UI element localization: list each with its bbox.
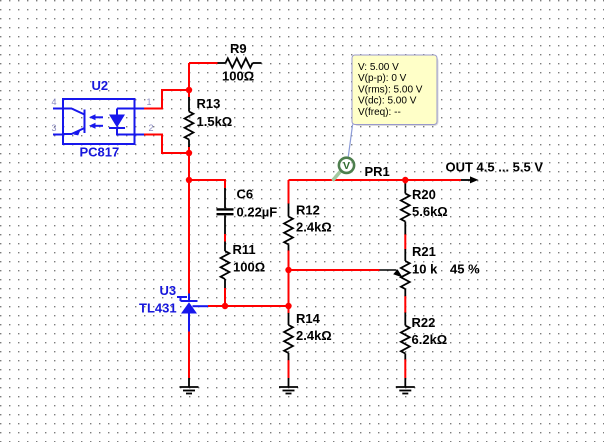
svg-text:5.6kΩ: 5.6kΩ [412, 204, 448, 219]
svg-text:V: V [343, 160, 350, 172]
svg-text:2: 2 [149, 123, 154, 133]
wire: R12 column [288, 180, 290, 204]
anode lead (blue) [188, 314, 190, 332]
svg-text:R22: R22 [412, 315, 436, 330]
U2 box [63, 99, 135, 144]
junction on rail at pin2 wire [186, 150, 192, 156]
svg-text:1: 1 [147, 97, 152, 107]
svg-text:100Ω: 100Ω [233, 260, 265, 275]
svg-text:PR1: PR1 [365, 164, 390, 179]
svg-text:R14: R14 [296, 311, 321, 326]
svg-text:TL431: TL431 [139, 301, 177, 316]
resistor R12 2.4kΩ [284, 204, 293, 251]
reference stub (blue) [193, 305, 209, 307]
resistor R22 6.2kΩ [401, 313, 410, 360]
shunt regulator U3 TL431 [177, 294, 208, 332]
wire: R20/R21/R22 column [404, 180, 406, 184]
wire: main output net [289, 179, 462, 181]
probe PR1 lens [339, 158, 354, 173]
junction R11 on ref line [222, 303, 228, 309]
svg-text:3: 3 [52, 123, 57, 133]
phototransistor bar [84, 110, 86, 134]
light arrowhead 1 [89, 114, 96, 120]
light arrow 2 [94, 125, 103, 127]
svg-text:OUT 4.5 ... 5.5 V: OUT 4.5 ... 5.5 V [446, 160, 544, 175]
wire: TL431 ref line to R12/R14 node [208, 305, 289, 307]
probe PR1 handle [334, 171, 342, 180]
svg-text:45 %: 45 % [450, 262, 480, 277]
svg-text:U3: U3 [160, 283, 177, 298]
junction wiper branch [285, 267, 291, 273]
junction on rail at C6 branch [186, 177, 192, 183]
svg-text:R12: R12 [296, 203, 320, 218]
OUT arrow [461, 179, 471, 181]
light arrow 1 [94, 116, 103, 118]
ground (right, under R22) [396, 378, 415, 394]
svg-text:6.2kΩ: 6.2kΩ [412, 332, 448, 347]
cathode bar [181, 300, 198, 302]
svg-text:V(rms): 5.00 V: V(rms): 5.00 V [358, 84, 423, 95]
svg-text:V(freq): --: V(freq): -- [358, 107, 401, 118]
resistor R20 5.6kΩ [401, 184, 410, 235]
ground (middle, under R14) [279, 378, 298, 394]
junction on rail at pin1 wire [186, 87, 192, 93]
resistor R11 100Ω [221, 242, 230, 289]
collector line [63, 109, 85, 115]
junction ref line at R12/R14 column [285, 303, 291, 309]
svg-text:V: 5.00 V: V: 5.00 V [358, 62, 399, 73]
wire: U2 pin1 to rail [144, 90, 189, 109]
emitter line [63, 128, 85, 134]
LED cathode bar [109, 127, 125, 129]
wire: wiper from R12/R14 node to R21 [289, 269, 380, 271]
LED triangle [109, 115, 125, 128]
potentiometer R21 10 k [401, 249, 410, 296]
wire: C6 to R11 [224, 234, 226, 242]
U2 pin stubs [53, 108, 63, 110]
emitter arrowhead [74, 129, 82, 136]
measurement callout box [352, 55, 437, 125]
measurement callout shadow [354, 57, 439, 126]
svg-text:1.5kΩ: 1.5kΩ [197, 114, 233, 129]
svg-text:R13: R13 [197, 96, 221, 111]
ground (left, under TL431) [180, 378, 199, 394]
capacitor C6 0.22µF [217, 188, 234, 234]
resistor R13 1.5kΩ (vertical on rail) [185, 97, 194, 147]
svg-text:R20: R20 [412, 187, 436, 202]
svg-text:100Ω: 100Ω [222, 69, 254, 84]
wire: U2 pin2 to rail [144, 135, 189, 154]
probe PR1 leader line to callout [348, 125, 352, 157]
svg-text:C6: C6 [237, 187, 254, 202]
LED vertical + top/bottom links [117, 108, 135, 110]
svg-text:R21: R21 [412, 244, 436, 259]
svg-text:V(dc): 5.00 V: V(dc): 5.00 V [358, 96, 417, 107]
resistor R9 100Ω (horizontal) [218, 58, 262, 67]
svg-text:4: 4 [52, 97, 57, 107]
wire: horizontal feed to R9 [189, 62, 218, 64]
svg-text:U2: U2 [92, 78, 109, 93]
wire: vertical rail x=189 from R9 level down to TL431 and ground [188, 63, 190, 98]
light arrowhead 2 [89, 123, 96, 129]
TL431 triangle [181, 302, 197, 313]
resistor R14 2.4kΩ [284, 313, 293, 360]
svg-text:0.22µF: 0.22µF [237, 205, 278, 220]
optocoupler U2 PC817 [53, 99, 144, 144]
junction on output net at R20 [402, 177, 408, 183]
cathode flag tick [177, 297, 187, 301]
svg-text:V(p-p): 0 V: V(p-p): 0 V [358, 73, 407, 84]
cathode lead (blue) [188, 294, 190, 302]
svg-text:2.4kΩ: 2.4kΩ [296, 220, 332, 235]
wire: R11 bottom to ref line [224, 288, 226, 306]
svg-text:10 k: 10 k [412, 262, 438, 277]
R21 wiper arrow [380, 269, 397, 271]
svg-text:PC817: PC817 [80, 145, 120, 160]
svg-text:2.4kΩ: 2.4kΩ [296, 328, 332, 343]
svg-text:R9: R9 [230, 41, 247, 56]
svg-text:R11: R11 [233, 242, 256, 257]
wire: branch from rail to C6 column [189, 180, 225, 188]
